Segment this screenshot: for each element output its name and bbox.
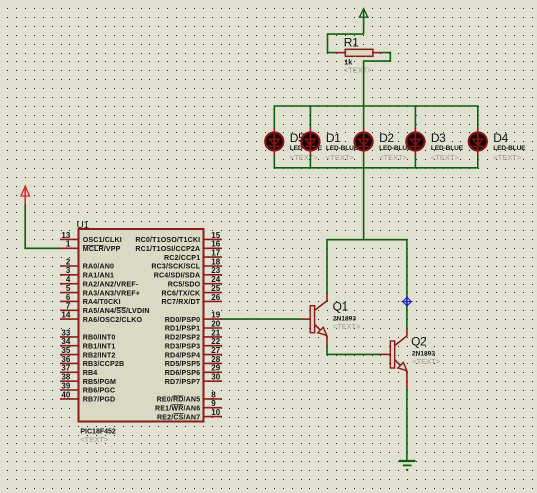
svg-text:29: 29	[211, 364, 220, 373]
svg-text:23: 23	[211, 266, 220, 275]
svg-text:21: 21	[211, 328, 220, 337]
pin 26 (RC7/RX/DT)	[162, 293, 222, 306]
svg-text:RC7/RX/DT: RC7/RX/DT	[162, 298, 201, 306]
LED D3	[406, 128, 424, 156]
wire to Q2 collector	[406, 239, 408, 329]
wire	[364, 60, 392, 62]
svg-text:RD7/PSP7: RD7/PSP7	[165, 378, 201, 386]
pin 39 (RB6/PGC)	[60, 381, 115, 394]
pin 40 (RB7/PGD)	[60, 390, 115, 403]
svg-text:RE0/RD/AN5: RE0/RD/AN5	[157, 396, 201, 404]
svg-text:36: 36	[61, 355, 70, 364]
pin 36 (RB3/CCP2B)	[60, 355, 124, 368]
wire RD0 to Q1 base	[222, 318, 302, 320]
wire	[328, 33, 364, 35]
pin 5 (RA3/AN3/VREF+)	[60, 284, 140, 297]
svg-text:2: 2	[66, 257, 71, 266]
pin 8 (RE0/RD/AN5)	[157, 390, 222, 403]
pin 16 (RC1/T1OSI/CCP2A)	[135, 240, 222, 253]
pin 27 (RD4/PSP4)	[165, 346, 222, 359]
svg-text:<TEXT>: <TEXT>	[431, 153, 460, 162]
wire	[327, 33, 329, 53]
power flag (red arrow)	[21, 186, 29, 205]
wire	[363, 105, 365, 128]
wire Q2 emitter to ground	[406, 390, 408, 462]
svg-text:20: 20	[211, 319, 220, 328]
svg-text:35: 35	[61, 346, 70, 355]
wire	[273, 105, 275, 128]
power flag VCC (green arrow)	[359, 8, 367, 34]
svg-text:14: 14	[61, 311, 70, 320]
svg-text:38: 38	[61, 373, 70, 382]
pin 22 (RD3/PSP3)	[165, 337, 222, 350]
svg-text:RD1/PSP1: RD1/PSP1	[165, 325, 201, 333]
svg-text:27: 27	[211, 346, 220, 355]
pin 37 (RB4)	[60, 364, 97, 377]
pin 18 (RC3/SCK/SCL)	[151, 257, 222, 270]
svg-text:<TEXT>: <TEXT>	[379, 153, 408, 162]
svg-text:16: 16	[211, 240, 220, 249]
wire	[326, 346, 328, 355]
pin 25 (RC6/TX/CK)	[162, 284, 222, 297]
svg-text:5: 5	[66, 284, 71, 293]
svg-text:<TEXT>: <TEXT>	[493, 153, 522, 162]
svg-text:40: 40	[61, 390, 70, 399]
LED D2	[355, 128, 373, 156]
svg-text:<TEXT>: <TEXT>	[333, 322, 362, 331]
svg-text:Q1: Q1	[333, 300, 349, 314]
svg-text:RB5/PGM: RB5/PGM	[83, 378, 116, 386]
svg-text:18: 18	[211, 257, 220, 266]
svg-text:24: 24	[211, 275, 220, 284]
ground	[399, 461, 416, 470]
svg-text:LED-BLUE: LED-BLUE	[493, 145, 526, 152]
svg-text:<TEXT>: <TEXT>	[326, 153, 355, 162]
transistor Q2	[380, 329, 407, 391]
pin 34 (RB1/INT1)	[60, 337, 115, 350]
svg-text:RC3/SCK/SCL: RC3/SCK/SCL	[151, 263, 200, 271]
svg-text:<TEXT>: <TEXT>	[412, 357, 441, 366]
junction marker node	[402, 296, 413, 307]
svg-text:MCLR/VPP: MCLR/VPP	[83, 245, 121, 253]
svg-text:RA4/T0CKI: RA4/T0CKI	[83, 298, 121, 306]
svg-text:34: 34	[61, 337, 70, 346]
svg-text:RB7/PGD: RB7/PGD	[83, 396, 116, 404]
pin 6 (RA4/T0CKI)	[60, 293, 121, 306]
svg-text:7: 7	[66, 302, 71, 311]
svg-text:RB4: RB4	[83, 369, 98, 377]
svg-text:RE1/WR/AN6: RE1/WR/AN6	[155, 404, 200, 412]
pin 23 (RC4/SDI/SDA)	[154, 266, 222, 279]
svg-text:D2: D2	[379, 131, 394, 145]
wire to Q1 collector	[326, 239, 328, 294]
svg-text:<TEXT>: <TEXT>	[80, 435, 109, 444]
wire LED bus to collectors	[363, 168, 365, 241]
pin 9 (RE1/WR/AN6)	[155, 399, 222, 412]
svg-text:RC6/TX/CK: RC6/TX/CK	[162, 289, 202, 297]
svg-text:9: 9	[211, 399, 216, 408]
svg-text:LED-BLUE: LED-BLUE	[326, 145, 359, 152]
svg-text:30: 30	[211, 373, 220, 382]
wire	[389, 52, 391, 62]
svg-text:D3: D3	[431, 131, 446, 145]
wire collector bus	[327, 239, 407, 241]
LED D1	[301, 128, 319, 156]
svg-text:RB1/INT1: RB1/INT1	[83, 342, 116, 350]
pin 3 (RA1/AN1)	[60, 266, 114, 279]
svg-text:10: 10	[211, 408, 220, 417]
svg-text:RE2/CS/AN7: RE2/CS/AN7	[157, 413, 200, 421]
svg-text:RD4/PSP4: RD4/PSP4	[165, 351, 201, 359]
svg-text:RA1/AN1: RA1/AN1	[83, 272, 114, 280]
svg-text:RB0/INT0: RB0/INT0	[83, 334, 116, 342]
svg-text:U1: U1	[77, 220, 90, 231]
svg-text:6: 6	[66, 293, 71, 302]
wire	[328, 52, 337, 54]
pin 20 (RD1/PSP1)	[165, 319, 222, 332]
pin 15 (RC0/T1OSO/T1CKI)	[135, 231, 222, 244]
op-amp U1 chip body PIC18F452	[79, 229, 204, 422]
svg-text:RC4/SDI/SDA: RC4/SDI/SDA	[154, 272, 201, 280]
pin 33 (RB0/INT0)	[60, 328, 115, 341]
svg-text:<TEXT>: <TEXT>	[290, 153, 319, 162]
svg-text:D4: D4	[493, 131, 508, 145]
svg-text:<TEXT>: <TEXT>	[344, 66, 373, 75]
svg-text:3: 3	[66, 266, 71, 275]
svg-text:28: 28	[211, 355, 220, 364]
pin 38 (RB5/PGM)	[60, 373, 116, 386]
svg-text:RA5/AN4/SS/LVDIN: RA5/AN4/SS/LVDIN	[83, 307, 150, 315]
pin 14 (RA6/OSC2/CLKO)	[60, 311, 143, 324]
wire	[382, 52, 392, 54]
svg-text:RC2/CCP1: RC2/CCP1	[164, 254, 200, 262]
wire	[477, 105, 479, 128]
wire bottom LED bus	[274, 167, 478, 169]
pin 29 (RD6/PSP6)	[165, 364, 222, 377]
pin 21 (RD2/PSP2)	[165, 328, 222, 341]
svg-text:22: 22	[211, 337, 220, 346]
svg-text:Q2: Q2	[411, 334, 427, 348]
wire	[414, 105, 416, 128]
wire	[309, 105, 311, 128]
svg-text:RB2/INT2: RB2/INT2	[83, 351, 116, 359]
svg-text:8: 8	[211, 390, 216, 399]
wire	[326, 353, 381, 355]
svg-text:RD3/PSP3: RD3/PSP3	[165, 342, 201, 350]
svg-text:13: 13	[61, 231, 70, 240]
svg-text:RA3/AN3/VREF+: RA3/AN3/VREF+	[83, 289, 140, 297]
svg-text:LED-BLUE: LED-BLUE	[431, 145, 464, 152]
pin 24 (RC5/SDO)	[168, 275, 222, 288]
svg-text:RC5/SDO: RC5/SDO	[168, 280, 201, 288]
pin 35 (RB2/INT2)	[60, 346, 115, 359]
transistor Q1	[301, 294, 327, 347]
svg-text:RD6/PSP6: RD6/PSP6	[165, 369, 201, 377]
svg-text:19: 19	[211, 311, 220, 320]
svg-text:33: 33	[61, 328, 70, 337]
pin 28 (RD5/PSP5)	[165, 355, 222, 368]
svg-text:4: 4	[66, 275, 71, 284]
pin 19 (RD0/PSP0)	[165, 311, 222, 324]
wire top LED bus	[274, 105, 478, 107]
wire	[363, 60, 365, 106]
LED D4	[469, 128, 487, 156]
svg-text:RD5/PSP5: RD5/PSP5	[165, 360, 201, 368]
pin 7 (RA5/AN4/SS/LVDIN)	[60, 302, 150, 315]
pin 17 (RC2/CCP1)	[164, 249, 222, 262]
svg-text:RD2/PSP2: RD2/PSP2	[165, 334, 201, 342]
svg-text:D1: D1	[326, 131, 341, 145]
svg-text:RB6/PGC: RB6/PGC	[83, 387, 116, 395]
wire	[24, 247, 60, 249]
svg-text:RC0/T1OSO/T1CKI: RC0/T1OSO/T1CKI	[135, 236, 200, 244]
pin 1 (MCLR/VPP)	[60, 240, 121, 253]
pin 10 (RE2/CS/AN7)	[157, 408, 222, 421]
svg-text:RA0/AN0: RA0/AN0	[83, 263, 114, 271]
svg-text:RD0/PSP0: RD0/PSP0	[165, 316, 201, 324]
svg-text:39: 39	[61, 381, 70, 390]
pin 30 (RD7/PSP7)	[165, 373, 222, 386]
wire	[24, 204, 26, 249]
LED D5	[265, 128, 283, 156]
pin 4 (RA2/AN2/VREF-)	[60, 275, 139, 288]
svg-text:RA2/AN2/VREF-: RA2/AN2/VREF-	[83, 280, 139, 288]
svg-text:RB3/CCP2B: RB3/CCP2B	[83, 360, 125, 368]
svg-text:R1: R1	[344, 36, 359, 50]
svg-text:OSC1/CLKI: OSC1/CLKI	[83, 236, 122, 244]
svg-text:1: 1	[66, 240, 71, 249]
svg-text:37: 37	[61, 364, 70, 373]
svg-text:26: 26	[211, 293, 220, 302]
svg-text:17: 17	[211, 249, 220, 258]
svg-text:RA6/OSC2/CLKO: RA6/OSC2/CLKO	[83, 316, 143, 324]
svg-text:25: 25	[211, 284, 220, 293]
resistor R1	[336, 49, 383, 56]
pin 2 (RA0/AN0)	[60, 257, 114, 270]
pin 13 (OSC1/CLKI)	[60, 231, 122, 244]
svg-text:RC1/T1OSI/CCP2A: RC1/T1OSI/CCP2A	[135, 245, 200, 253]
svg-text:15: 15	[211, 231, 220, 240]
